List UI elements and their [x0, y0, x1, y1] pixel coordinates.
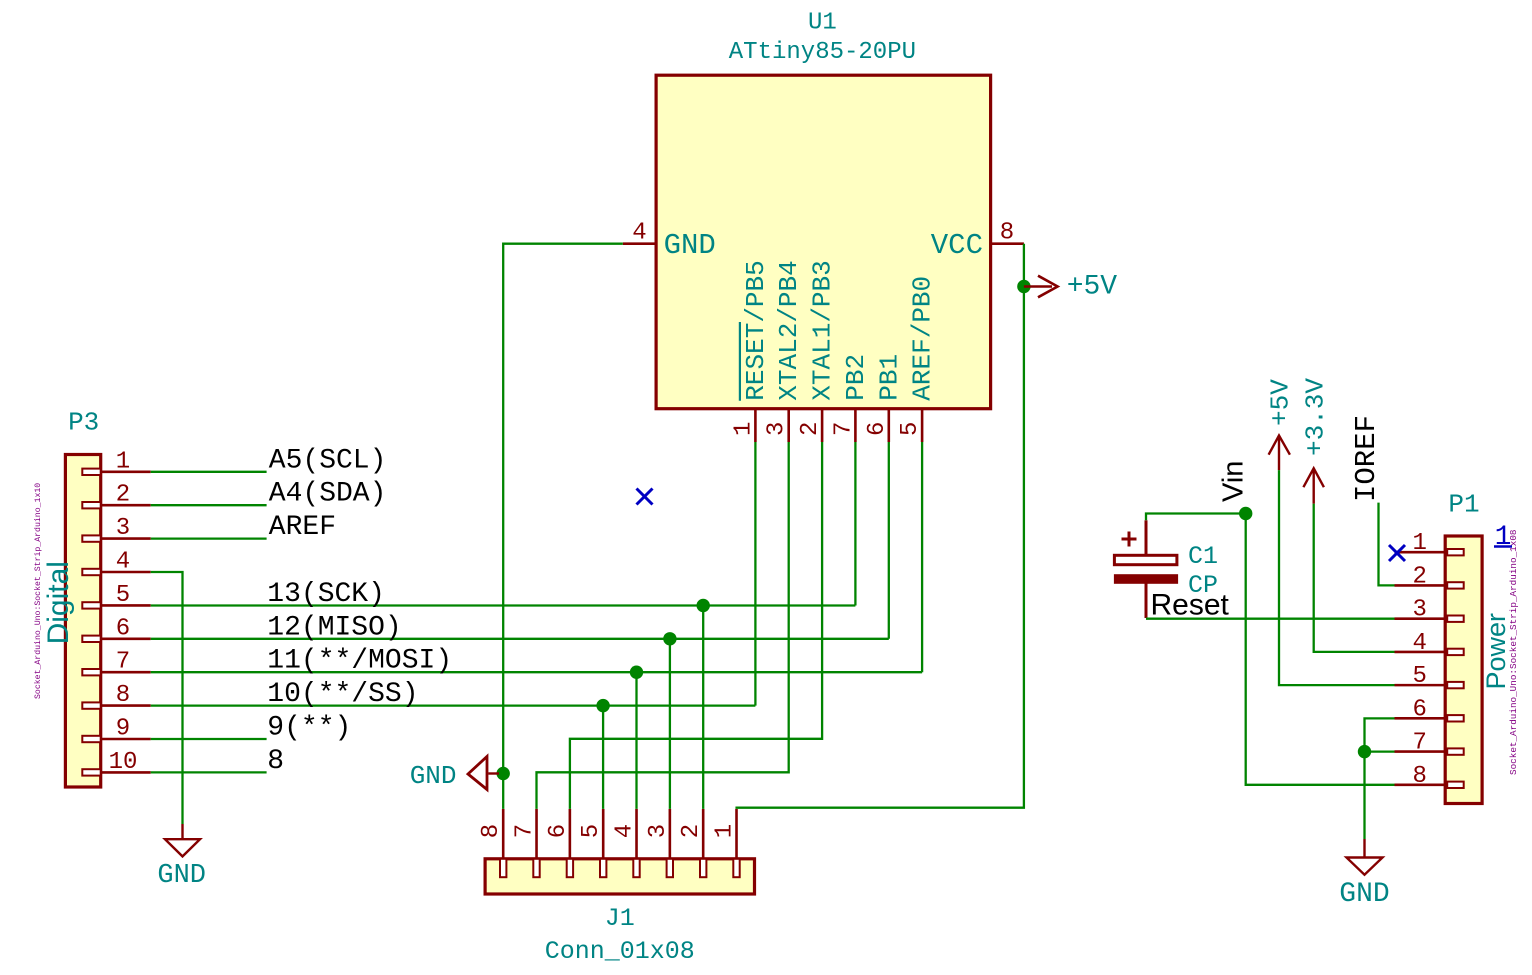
wire J1.5 up to SS net [602, 706, 604, 809]
global label GND at J1 pin 8 net [468, 757, 499, 790]
wire IOREF to P1.2 [1379, 503, 1395, 586]
wire +3.3V to P1.4 [1314, 504, 1395, 652]
junction GND at J1 [497, 767, 510, 780]
svg-text:6: 6 [545, 824, 572, 838]
junction MISO/J1.3 [663, 632, 676, 645]
svg-text:RESET/PB5: RESET/PB5 [741, 260, 771, 400]
svg-text:4: 4 [632, 220, 646, 247]
U1 pin 1 stub [754, 409, 757, 442]
P3 pin 6 stub [101, 637, 151, 640]
P1 pin 7 stub [1395, 750, 1446, 753]
svg-text:Digital: Digital [42, 561, 75, 644]
P3 pin 9 socket [82, 736, 100, 742]
U1 pin 7 stub [854, 409, 857, 442]
wire U1 pin5 down [921, 442, 923, 672]
svg-text:A5(SCL): A5(SCL) [269, 445, 387, 476]
svg-text:J1: J1 [605, 904, 635, 933]
wire J1.2 up to SCK net [702, 606, 704, 809]
wire P1.6 to GND [1365, 718, 1395, 839]
svg-text:8: 8 [1412, 763, 1426, 790]
P3 pin 6 socket [82, 636, 100, 642]
svg-text:AREF/PB0: AREF/PB0 [908, 276, 938, 401]
J1 pin 3 socket [667, 859, 673, 877]
J1 pin 1 socket [733, 859, 739, 877]
svg-text:C1: C1 [1188, 542, 1218, 571]
wire +5V to P1.5 [1279, 470, 1395, 685]
P3 pin 5 socket [82, 602, 100, 608]
ground symbol below P1 [1347, 839, 1383, 875]
P1 pin 5 socket [1447, 682, 1464, 688]
svg-text:8: 8 [478, 824, 505, 838]
P3 pin 1 stub [101, 470, 151, 473]
power symbol +5V at P1 [1269, 436, 1290, 471]
svg-text:2: 2 [1412, 563, 1426, 590]
capacitor C1 top plate [1114, 555, 1177, 564]
J1 pin 7 socket [533, 859, 539, 877]
svg-text:1: 1 [712, 824, 739, 838]
svg-text:4: 4 [116, 549, 130, 576]
svg-text:2: 2 [678, 824, 705, 838]
P1 pin 8 stub [1395, 784, 1446, 787]
svg-text:1: 1 [1495, 522, 1512, 553]
svg-text:8: 8 [267, 746, 284, 777]
svg-text:8: 8 [116, 682, 130, 709]
svg-text:13(SCK): 13(SCK) [267, 579, 385, 610]
junction +5V at VCC [1017, 280, 1030, 293]
P1 pin 4 socket [1447, 649, 1464, 655]
wire U1 pin1 down [754, 442, 756, 706]
svg-text:P1: P1 [1448, 490, 1479, 520]
svg-text:ATtiny85-20PU: ATtiny85-20PU [729, 39, 916, 66]
capacitor C1 bottom plate [1114, 575, 1177, 584]
wire P3.4 to GND [151, 572, 183, 824]
P3 pin 2 socket [82, 502, 100, 508]
overline on RESET pin name [739, 322, 741, 401]
capacitor C1 bottom lead [1145, 584, 1148, 619]
J1 pin 8 socket [500, 859, 506, 877]
P3 pin 3 socket [82, 535, 100, 541]
ground symbol below P3 [165, 824, 200, 856]
wire net 12(MISO) P3.6 to U1 PB1 [151, 638, 889, 640]
svg-text:9(**): 9(**) [267, 713, 351, 744]
junction SCK/J1.2 [697, 599, 710, 612]
svg-text:3: 3 [116, 515, 130, 542]
wire J1.3 up to MISO net [669, 639, 671, 809]
J1 pin 5 socket [600, 859, 606, 877]
wire GND net U1.4 to J1.8 [503, 244, 623, 809]
junction SS/J1.5 [596, 699, 609, 712]
U1 pin 6 stub [887, 409, 890, 442]
svg-text:PB2: PB2 [841, 354, 871, 401]
J1 pin 5 stub [602, 809, 605, 859]
svg-text:4: 4 [1412, 630, 1426, 657]
P3 pin 8 socket [82, 702, 100, 708]
svg-text:12(MISO): 12(MISO) [267, 612, 401, 643]
wire net 13(SCK) P3.5 to U1 PB2 [151, 604, 856, 606]
svg-text:Power: Power [1481, 613, 1511, 690]
svg-text:GND: GND [1339, 879, 1389, 910]
svg-text:XTAL1/PB3: XTAL1/PB3 [808, 260, 838, 400]
J1 pin 8 stub [502, 809, 505, 859]
junction Vin [1239, 507, 1252, 520]
P1 pin 6 stub [1395, 717, 1446, 720]
P1 pin 1 socket [1447, 549, 1464, 555]
U1 pin 8 (VCC) stub [991, 242, 1024, 245]
wire P3.2 to label A4(SDA) [151, 504, 267, 506]
IC U1 ATtiny85-20PU body [656, 75, 991, 409]
svg-text:5: 5 [578, 824, 605, 838]
connector J1 body [485, 859, 754, 894]
wire U1 pin6 down [888, 442, 890, 639]
junction GND P1.7 [1358, 745, 1371, 758]
P1 pin 6 socket [1447, 715, 1464, 721]
svg-text:GND: GND [410, 761, 457, 791]
U1 pin 5 stub [921, 409, 924, 442]
svg-text:6: 6 [864, 422, 891, 436]
svg-text:XTAL2/PB4: XTAL2/PB4 [774, 260, 804, 400]
svg-text:5: 5 [1412, 663, 1426, 690]
wire net 10(SS) P3.8 to U1 RESET [151, 704, 756, 706]
capacitor C1 plus sign [1122, 532, 1137, 547]
J1 pin 7 stub [535, 809, 538, 859]
no-connect X near U1 [637, 489, 653, 505]
svg-text:6: 6 [1412, 696, 1426, 723]
J1 pin 4 stub [635, 809, 638, 859]
power symbol +5V at U1 VCC [1024, 276, 1058, 298]
svg-text:4: 4 [612, 824, 639, 838]
U1 pin 3 stub [787, 409, 790, 442]
P3 pin 1 socket [82, 469, 100, 475]
wire Reset net C1 to P1.3 [1146, 618, 1395, 620]
P3 pin 4 socket [82, 569, 100, 575]
svg-text:+5V: +5V [1266, 379, 1296, 426]
svg-text:Reset: Reset [1151, 589, 1230, 622]
svg-text:IOREF: IOREF [1350, 415, 1383, 502]
wire C1 top to Vin node [1146, 514, 1246, 521]
P3 pin 10 stub [101, 771, 151, 774]
P3 pin 8 stub [101, 704, 151, 707]
svg-text:7: 7 [830, 422, 857, 436]
svg-text:5: 5 [897, 422, 924, 436]
svg-text:U1: U1 [808, 10, 837, 37]
connector P3 body [65, 455, 100, 788]
wire J1.4 up to MOSI net [635, 672, 637, 809]
P1 pin 2 socket [1447, 582, 1464, 588]
P3 pin 9 stub [101, 738, 151, 741]
svg-text:1: 1 [730, 422, 757, 436]
U1 pin 4 (GND) stub [623, 242, 656, 245]
svg-text:1: 1 [116, 448, 130, 475]
P3 pin 4 stub [101, 571, 151, 574]
svg-text:PB1: PB1 [874, 354, 904, 401]
P3 pin 7 stub [101, 671, 151, 674]
wire P3.9 to label 9(**) [151, 738, 267, 740]
J1 pin 4 socket [633, 859, 639, 877]
svg-text:6: 6 [116, 615, 130, 642]
P1 pin 8 socket [1447, 782, 1464, 788]
J1 pin 3 stub [669, 809, 672, 859]
svg-text:7: 7 [1412, 730, 1426, 757]
svg-text:7: 7 [512, 824, 539, 838]
P3 pin 10 socket [82, 769, 100, 775]
svg-text:+3.3V: +3.3V [1301, 378, 1331, 456]
wire P3.1 to label A5(SCL) [151, 471, 267, 473]
svg-text:9: 9 [116, 716, 130, 743]
J1 pin 2 socket [700, 859, 706, 877]
J1 pin 6 stub [569, 809, 572, 859]
P1 pin 2 stub [1395, 584, 1446, 587]
P3 pin 5 stub [101, 604, 151, 607]
wire VCC net U1.8 to J1.1 [737, 244, 1024, 809]
svg-text:3: 3 [1412, 597, 1426, 624]
svg-text:GND: GND [664, 229, 716, 262]
capacitor C1 top lead [1145, 520, 1148, 555]
wire net 11(MOSI) P3.7 to U1 PB0 [151, 671, 922, 673]
P1 pin 4 stub [1395, 651, 1446, 654]
power symbol +3.3V at P1 [1303, 468, 1324, 503]
svg-text:11(**/MOSI): 11(**/MOSI) [267, 646, 452, 677]
svg-text:VCC: VCC [931, 229, 983, 262]
wire P1.7 to GND junction [1365, 750, 1395, 752]
junction MOSI/J1.4 [630, 666, 643, 679]
svg-text:A4(SDA): A4(SDA) [269, 479, 387, 510]
svg-text:5: 5 [116, 582, 130, 609]
P3 pin 3 stub [101, 537, 151, 540]
svg-text:10(**/SS): 10(**/SS) [267, 679, 418, 710]
J1 pin 1 stub [735, 809, 738, 859]
svg-text:8: 8 [1000, 220, 1014, 247]
svg-text:2: 2 [797, 422, 824, 436]
svg-text:2: 2 [116, 482, 130, 509]
wire U1 pin2 to J1.6 [570, 442, 822, 809]
svg-text:10: 10 [109, 749, 138, 776]
svg-text:+5V: +5V [1067, 272, 1118, 303]
P3 pin 2 stub [101, 504, 151, 507]
svg-text:3: 3 [764, 422, 791, 436]
wire Vin node down to P1.8 [1246, 514, 1395, 785]
svg-text:Socket_Arduino_Uno:Socket_Stri: Socket_Arduino_Uno:Socket_Strip_Arduino_… [1508, 530, 1519, 775]
P1 pin 7 socket [1447, 748, 1464, 754]
wire P3.3 to label AREF [151, 537, 267, 539]
svg-text:1: 1 [1412, 530, 1426, 557]
svg-text:Conn_01x08: Conn_01x08 [545, 937, 695, 966]
P1 pin 5 stub [1395, 684, 1446, 687]
wire P3.10 to label 8 [151, 771, 267, 773]
svg-text:Socket_Arduino_Uno:Socket_Stri: Socket_Arduino_Uno:Socket_Strip_Arduino_… [33, 483, 43, 699]
P3 pin 7 socket [82, 669, 100, 675]
no-connect X at P1 pin 1 [1389, 545, 1405, 561]
P1 pin 3 stub [1395, 617, 1446, 620]
svg-text:P3: P3 [68, 408, 99, 438]
svg-text:AREF: AREF [269, 512, 336, 543]
svg-text:Vin: Vin [1218, 461, 1250, 502]
connector P1 body [1445, 536, 1482, 804]
P1 pin 3 socket [1447, 616, 1464, 622]
svg-text:7: 7 [116, 649, 130, 676]
J1 pin 2 stub [702, 809, 705, 859]
P1 pin 1 stub [1395, 551, 1446, 554]
blue unit marker 1 at P1 [1494, 522, 1512, 553]
wire U1 pin3 to J1.7 [537, 442, 789, 809]
svg-text:3: 3 [645, 824, 672, 838]
wire U1 pin7 down [854, 442, 856, 606]
U1 pin 2 stub [821, 409, 824, 442]
svg-text:GND: GND [157, 861, 206, 891]
J1 pin 6 socket [567, 859, 573, 877]
